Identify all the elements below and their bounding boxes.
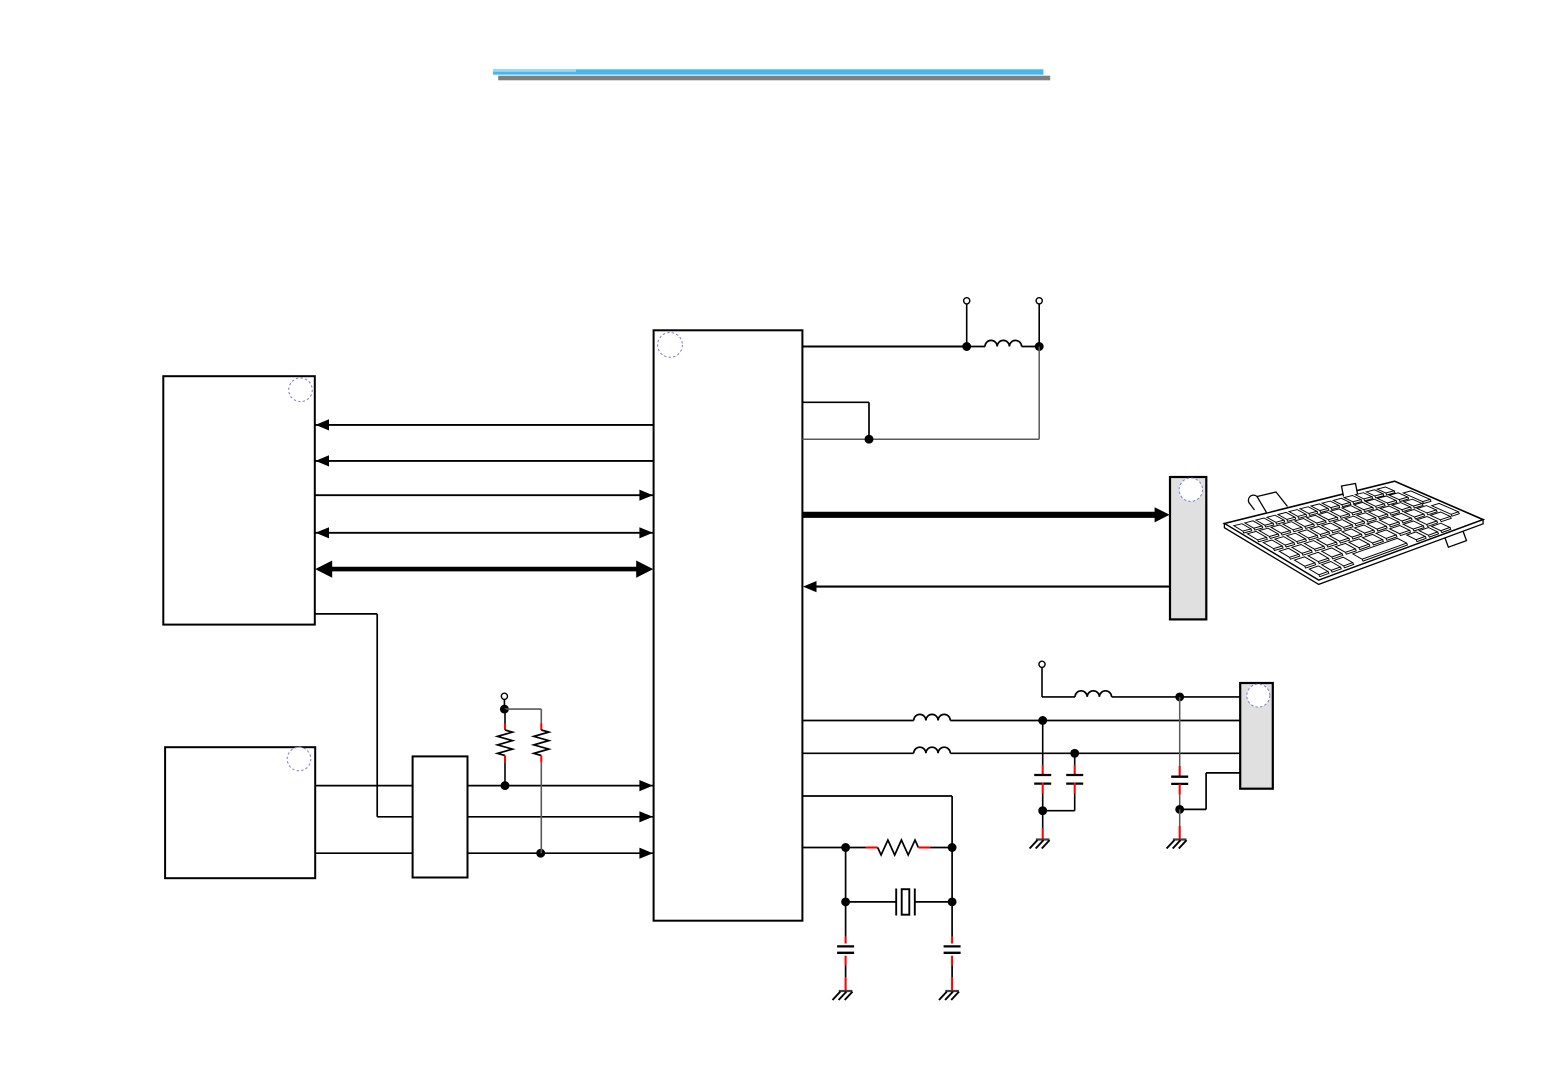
wire KBC data line [802, 752, 913, 754]
wire from host block down to level shifter [315, 613, 377, 615]
callout circle on upper-left block [289, 378, 313, 402]
power terminal T3 [1039, 661, 1045, 667]
power terminal T2 [1036, 298, 1042, 304]
junction dot crystal left [841, 897, 850, 906]
junction dot L1 left [962, 342, 971, 351]
capacitor C4 load [845, 902, 847, 937]
power terminal T1 [964, 298, 970, 304]
capacitor C3 on VCC [1179, 697, 1181, 766]
wire keyboard return line arrow [806, 586, 1170, 588]
junction dot VCC at CN2 [1175, 692, 1184, 701]
wire pull-up rail horizontal [504, 708, 541, 710]
wire touch-pad line 3 [315, 852, 412, 854]
capacitor C5 load [951, 902, 953, 937]
wire C2 bottom to C1 bottom [1043, 810, 1075, 812]
wire T3 down and to L2 [1041, 667, 1043, 697]
inductor L2 [1075, 691, 1112, 697]
wire bus arrow 3 (host to KBC, right) [315, 494, 654, 496]
crystal Y1 [846, 901, 897, 903]
junction dot C1/C2 ground node [1038, 806, 1047, 815]
wire KBC XTAL2 line [802, 847, 845, 849]
junction dot crystal right [948, 897, 957, 906]
power terminal for pull-ups [501, 693, 507, 699]
wire VCC into CN2 [1180, 696, 1241, 698]
junction dot XTAL2 node [841, 843, 850, 852]
junction dot C3 ground node [1175, 805, 1184, 814]
keyboard illustration: rear tab [1342, 484, 1358, 497]
ground symbol G1 [1036, 838, 1050, 840]
wire data bus thick (bidirectional) [330, 567, 640, 572]
wire L1 right down [1038, 347, 1040, 440]
resistor R3 feedback [846, 847, 866, 849]
junction dot pull-up rail [500, 705, 509, 714]
junction dot XTAL1 node [948, 843, 957, 852]
wire touch-pad line 1 [315, 785, 412, 787]
callout circle on CN1 [1179, 478, 1202, 501]
connector CN1 keyboard (gray) [1170, 477, 1206, 619]
junction dot stub/return [865, 435, 874, 444]
resistor R2 pull-up [540, 709, 542, 723]
title underline blue bar [493, 69, 1044, 74]
ground symbol G3 [839, 990, 853, 992]
callout circle on KBC block [658, 333, 683, 358]
wire C3 down to ground [1179, 809, 1181, 826]
wire XTAL1 node down [951, 848, 953, 902]
title underline highlight [493, 69, 576, 72]
title underline gray shadow [498, 76, 1050, 81]
ground symbol G4 [945, 990, 959, 992]
wire KBC return line [802, 438, 1039, 440]
wire KBC XTAL1 stub [802, 795, 952, 797]
callout circle on lower-left block [287, 747, 311, 771]
wire bus arrow 1 (KBC to host, left) [315, 424, 654, 426]
wire KBC stub down to return [802, 401, 869, 403]
wire XTAL2 node down [845, 848, 847, 902]
keyboard illustration: right step tab [1444, 528, 1467, 548]
capacitor C1 on clock line [1042, 721, 1044, 766]
resistor R1 pull-up [504, 709, 506, 723]
ground symbol G2 [1173, 838, 1187, 840]
keyboard illustration: front rim [1224, 520, 1483, 585]
junction dot on line 3 [536, 849, 545, 858]
wire KBC clock line [802, 720, 913, 722]
block host/system interface (upper left) [163, 376, 314, 624]
keyboard illustration: ribbon cable curl [1257, 492, 1288, 513]
wire bus arrow 4 (bidirectional) [315, 532, 654, 534]
inductor L1 [967, 346, 985, 348]
keyboard illustration: keys [1234, 487, 1460, 577]
block touch-pad unit (lower left) [165, 747, 315, 878]
junction dot data/cap [1070, 749, 1079, 758]
wire CN2 ground stub [1206, 772, 1240, 774]
junction dot clock/cap [1038, 716, 1047, 725]
wire KBC pin to L1 [802, 346, 966, 348]
wire terminal T1 down [966, 304, 968, 347]
block KBC micro-controller U1 (center) [654, 330, 803, 920]
wire thick keyboard scan bus arrow [802, 512, 1158, 518]
callout circle on CN2 [1247, 684, 1270, 707]
capacitor C2 on data line [1074, 753, 1076, 765]
keyboard illustration: base plate [1224, 481, 1483, 580]
junction dot on line 1 [501, 781, 510, 790]
junction dot L1 right [1035, 342, 1044, 351]
wire ground node down [1042, 811, 1044, 828]
wire terminal to junction [503, 699, 505, 709]
wire terminal T2 down [1038, 304, 1040, 347]
wire level-shifter line 2 to KBC [468, 816, 654, 818]
block level shifter (small, center-bottom) [413, 756, 468, 877]
inductor L4 [914, 747, 951, 753]
connector CN2 external port (gray) [1240, 683, 1273, 789]
inductor L3 [914, 714, 951, 720]
wire bus arrow 2 (KBC to host, left) [315, 460, 654, 462]
